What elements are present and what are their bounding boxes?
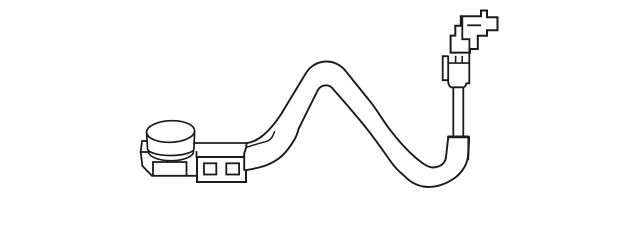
connector latch (stepped top) bbox=[451, 11, 498, 53]
battery terminal base plate bbox=[141, 141, 197, 176]
sensor connector box bbox=[197, 157, 246, 182]
wire sleeve inner line bbox=[247, 131, 275, 147]
sensor box window 1 bbox=[204, 163, 216, 174]
wire boot at elbow bbox=[447, 137, 470, 160]
connector body bbox=[443, 53, 470, 88]
housing left vertical bbox=[196, 152, 198, 157]
battery post cylinder cap bbox=[146, 120, 195, 161]
sensor housing deck line bbox=[194, 142, 247, 144]
wire (main battery cable tube) bbox=[244, 62, 468, 187]
sensor box window 2 bbox=[226, 163, 239, 174]
connector lead wire (narrow) bbox=[453, 87, 463, 138]
